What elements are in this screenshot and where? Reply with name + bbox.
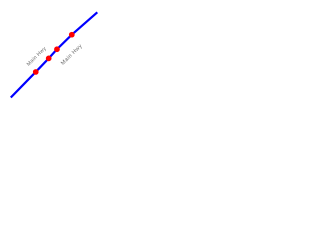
stop marker 3 xyxy=(54,46,60,52)
stop marker 2 xyxy=(46,56,52,62)
svg-text:Main Hwy: Main Hwy xyxy=(60,43,84,66)
svg-text:Main Hwy: Main Hwy xyxy=(26,46,48,68)
road Main Hwy (blue route polyline) xyxy=(11,12,98,97)
stop marker 4 xyxy=(69,32,75,38)
stop marker 1 xyxy=(33,69,39,75)
